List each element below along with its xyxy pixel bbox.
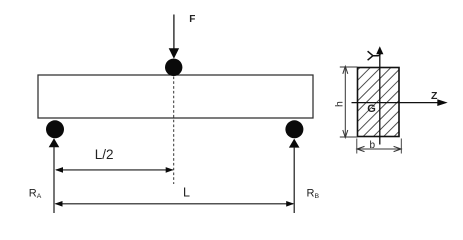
y axis [376, 46, 383, 144]
support B circle [285, 120, 303, 138]
dimension h [340, 66, 358, 137]
reaction RB arrow [289, 139, 300, 213]
svg-text:b: b [370, 140, 376, 151]
beam [38, 75, 313, 118]
label y (rotated glyph) [368, 51, 381, 60]
reaction RA arrow [49, 138, 60, 213]
svg-text:L/2: L/2 [95, 147, 114, 162]
section rectangle [358, 68, 400, 137]
svg-text:F: F [189, 14, 195, 25]
svg-text:RA: RA [29, 188, 42, 200]
dimension L/2 [55, 167, 174, 173]
centerline (dashed) [173, 77, 175, 185]
force F arrow [169, 15, 179, 59]
svg-text:RB: RB [307, 188, 320, 200]
svg-text:Z: Z [431, 90, 438, 102]
svg-text:G: G [367, 103, 376, 115]
svg-text:L: L [183, 186, 190, 200]
z axis [352, 99, 448, 106]
load application circle [165, 59, 182, 76]
section hatching [282, 66, 463, 146]
support A circle [46, 120, 64, 138]
dimension L [55, 201, 295, 207]
svg-text:h: h [334, 101, 346, 107]
dimension b [357, 139, 402, 154]
